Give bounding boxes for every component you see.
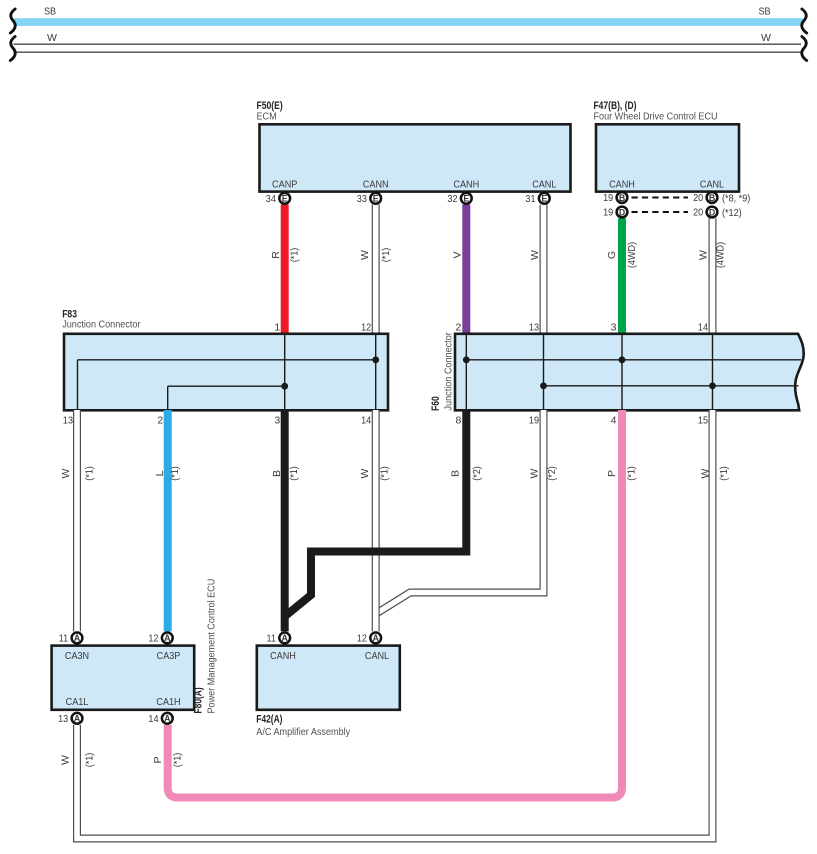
svg-text:11: 11 (59, 633, 69, 645)
svg-text:19: 19 (603, 207, 613, 219)
svg-text:W: W (761, 32, 771, 44)
svg-text:G: G (606, 251, 618, 259)
svg-text:11: 11 (267, 633, 277, 645)
svg-text:B: B (449, 470, 461, 477)
svg-text:A: A (282, 633, 289, 643)
svg-text:14: 14 (698, 322, 708, 334)
svg-text:13: 13 (529, 322, 539, 334)
svg-text:19: 19 (603, 192, 613, 204)
svg-text:CA1H: CA1H (156, 696, 180, 708)
svg-text:(*1): (*1) (84, 466, 96, 481)
svg-text:(*1): (*1) (288, 466, 300, 481)
svg-text:D: D (619, 207, 625, 217)
svg-text:P: P (152, 756, 164, 763)
svg-text:12: 12 (357, 633, 367, 645)
svg-text:ECM: ECM (257, 111, 277, 123)
svg-text:E: E (373, 194, 379, 204)
svg-text:A: A (74, 714, 81, 724)
svg-text:15: 15 (698, 415, 708, 427)
svg-text:F80(A): F80(A) (192, 687, 204, 713)
svg-text:Four Wheel Drive Control ECU: Four Wheel Drive Control ECU (594, 111, 718, 123)
svg-text:F42(A): F42(A) (256, 714, 282, 726)
svg-text:CANP: CANP (272, 178, 297, 190)
svg-text:CANL: CANL (700, 178, 724, 190)
svg-text:F60: F60 (430, 396, 442, 411)
svg-text:W: W (698, 250, 710, 260)
svg-text:34: 34 (266, 193, 276, 205)
svg-text:D: D (709, 207, 715, 217)
svg-text:CA3N: CA3N (65, 650, 89, 662)
svg-text:Power Management Control ECU: Power Management Control ECU (206, 579, 218, 714)
svg-text:Junction Connector: Junction Connector (62, 318, 141, 330)
svg-text:(*2): (*2) (546, 466, 558, 481)
svg-text:1: 1 (274, 322, 280, 334)
svg-text:CANH: CANH (270, 650, 296, 662)
svg-text:Junction Connector: Junction Connector (443, 332, 455, 411)
svg-text:W: W (47, 32, 57, 44)
svg-text:20: 20 (693, 192, 703, 204)
svg-text:A/C Amplifier Assembly: A/C Amplifier Assembly (256, 726, 351, 738)
svg-text:R: R (270, 251, 282, 259)
svg-text:W: W (60, 755, 72, 765)
svg-text:CANH: CANH (453, 178, 479, 190)
svg-text:W: W (60, 468, 72, 478)
svg-text:(*8, *9): (*8, *9) (722, 193, 750, 205)
svg-text:(4WD): (4WD) (626, 242, 638, 268)
svg-text:CA3P: CA3P (157, 650, 181, 662)
svg-text:V: V (452, 251, 464, 258)
svg-text:CA1L: CA1L (66, 696, 89, 708)
svg-text:14: 14 (361, 415, 371, 427)
svg-text:(4WD): (4WD) (714, 242, 726, 268)
svg-text:8: 8 (455, 415, 461, 427)
svg-text:CANL: CANL (532, 178, 556, 190)
svg-text:A: A (373, 633, 380, 643)
svg-text:(*12): (*12) (722, 207, 742, 219)
svg-text:W: W (359, 250, 371, 260)
svg-text:(*1): (*1) (172, 753, 184, 768)
svg-text:SB: SB (759, 6, 771, 18)
svg-text:L: L (154, 470, 166, 476)
svg-text:3: 3 (274, 415, 280, 427)
svg-text:A: A (164, 633, 171, 643)
svg-text:CANL: CANL (365, 650, 389, 662)
svg-text:(*1): (*1) (378, 466, 390, 481)
svg-text:31: 31 (525, 193, 535, 205)
svg-text:20: 20 (693, 207, 703, 219)
svg-text:(*1): (*1) (718, 466, 730, 481)
svg-text:A: A (164, 714, 171, 724)
svg-text:P: P (606, 470, 618, 477)
svg-text:3: 3 (611, 322, 617, 334)
svg-text:(*1): (*1) (626, 466, 638, 481)
svg-text:W: W (700, 468, 712, 478)
svg-text:4: 4 (611, 415, 617, 427)
svg-text:E: E (541, 194, 547, 204)
svg-text:A: A (74, 633, 81, 643)
svg-text:13: 13 (58, 713, 68, 725)
svg-text:(*1): (*1) (380, 248, 392, 263)
svg-text:B: B (709, 193, 715, 203)
svg-text:B: B (271, 470, 283, 477)
svg-text:2: 2 (455, 322, 461, 334)
svg-text:W: W (529, 468, 541, 478)
svg-text:32: 32 (447, 193, 457, 205)
svg-text:(*1): (*1) (169, 466, 181, 481)
svg-text:12: 12 (148, 633, 158, 645)
svg-text:(*1): (*1) (289, 248, 301, 263)
svg-text:(*1): (*1) (84, 753, 96, 768)
svg-text:SB: SB (44, 6, 56, 18)
svg-text:CANH: CANH (609, 178, 635, 190)
svg-text:33: 33 (357, 193, 367, 205)
svg-text:12: 12 (361, 322, 371, 334)
svg-text:13: 13 (63, 415, 73, 427)
svg-text:CANN: CANN (363, 178, 389, 190)
svg-text:E: E (463, 194, 469, 204)
svg-text:B: B (619, 193, 625, 203)
svg-text:14: 14 (148, 713, 158, 725)
svg-text:19: 19 (529, 415, 539, 427)
svg-text:W: W (529, 250, 541, 260)
svg-text:W: W (359, 468, 371, 478)
svg-text:(*2): (*2) (471, 466, 483, 481)
svg-text:E: E (282, 194, 288, 204)
svg-text:2: 2 (157, 415, 163, 427)
